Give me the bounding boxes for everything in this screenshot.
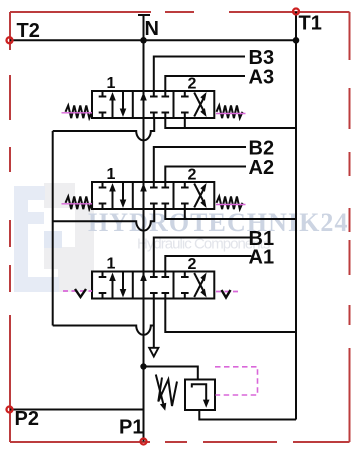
valve 1 right return spring xyxy=(217,106,243,119)
wire: valve 1 tank return to T1 xyxy=(165,118,296,128)
svg-text:P1: P1 xyxy=(119,417,143,439)
wire: pump feed to valve 2 with crossing hop xyxy=(53,210,155,231)
enclosure boundary left edge (red dashed) xyxy=(9,12,11,442)
svg-text:A2: A2 xyxy=(249,157,275,179)
valve 3 right box crossed arrows xyxy=(194,273,203,297)
valve 3 left detent centreline (magenta dashed) xyxy=(63,290,92,292)
svg-text:T2: T2 xyxy=(17,20,40,42)
valve section 3 outer boxes xyxy=(92,272,214,299)
svg-text:A1: A1 xyxy=(249,246,275,268)
valve 1 left box down arrow xyxy=(122,92,124,112)
wire: N / centre gallery vertical xyxy=(143,15,145,442)
valve 1 left return spring xyxy=(66,106,93,119)
svg-text:2: 2 xyxy=(188,76,197,93)
valve 2 centre gallery up arrowhead xyxy=(140,183,147,192)
valve 2 middle box blocked port stubs xyxy=(150,182,169,209)
relief valve adjustment arrow xyxy=(156,375,163,404)
valve 3 left box down arrow xyxy=(122,273,124,293)
connection point P1 (red) xyxy=(141,439,147,445)
valve 1 middle box blocked port stubs xyxy=(150,91,169,118)
connection point T2 (red) xyxy=(7,37,13,43)
valve 3 centre gallery up arrowhead xyxy=(140,273,147,282)
valve 3 left detent notch xyxy=(75,289,86,297)
valve 2 left box down arrow xyxy=(122,183,124,203)
valve 2 left box blocked port stubs xyxy=(99,182,107,209)
svg-text:1: 1 xyxy=(107,166,116,183)
relief valve flow path arrow xyxy=(192,384,206,400)
enclosure boundary right edge (red dashed) xyxy=(349,12,351,442)
wire: port A3 xyxy=(165,76,245,91)
valve 1 left box up arrow xyxy=(112,97,114,117)
relief valve body xyxy=(185,380,215,411)
wire: valve 2 right box drain stub xyxy=(184,209,186,219)
valve 2 left box up arrow xyxy=(112,188,114,208)
junction P node xyxy=(140,363,146,369)
valve 3 middle box blocked port stubs xyxy=(150,272,169,299)
wire: P2 line xyxy=(10,409,144,411)
wire: port A1 xyxy=(165,256,251,272)
enclosure boundary top edge (red dashed) xyxy=(10,11,350,13)
valve 1 right spring centreline (magenta) xyxy=(216,113,246,115)
valve 2 right spring centreline (magenta) xyxy=(216,204,246,206)
wire: valve 1 right box drain stub xyxy=(184,118,186,128)
valve 3 right box blocked port stubs xyxy=(181,272,189,299)
wire: tank rail T2-T1 xyxy=(10,39,296,41)
wire: pump feed to valve 1 with crossing hop xyxy=(53,119,155,141)
valve 2 left spring centreline (magenta) xyxy=(62,203,93,205)
valve 2 right box blocked port stubs xyxy=(181,182,189,209)
svg-text:1: 1 xyxy=(107,75,116,92)
open flow arrowhead xyxy=(149,348,158,357)
junction T1 x tank rail xyxy=(293,37,300,44)
pilot line (magenta dashed) xyxy=(215,367,258,395)
wire: left feed rail vertical xyxy=(52,131,54,326)
relief valve adjustable spring xyxy=(158,378,177,407)
valve 1 right box blocked port stubs xyxy=(181,91,189,118)
wire: valve 2 tank return to T1 xyxy=(165,209,296,219)
svg-text:N: N xyxy=(145,18,159,40)
svg-text:P2: P2 xyxy=(15,408,39,430)
svg-text:2: 2 xyxy=(188,256,197,273)
watermark logo block (light) xyxy=(14,183,94,292)
enclosure boundary bottom edge (red dashed) xyxy=(10,441,350,443)
wire: P node to relief valve xyxy=(144,367,198,380)
svg-text:HYDROTECHNIK24: HYDROTECHNIK24 xyxy=(88,208,348,237)
valve 2 right box crossed arrows xyxy=(194,184,203,208)
node N top tick xyxy=(138,14,150,16)
valve 1 right box crossed arrows xyxy=(194,93,203,117)
wire: valve 3 tank return to T1 xyxy=(165,299,296,333)
wire: port B1 xyxy=(154,238,252,272)
valve section 1 outer boxes xyxy=(92,91,214,118)
valve 3 right detent centreline (magenta dashed) xyxy=(216,291,239,293)
junction N x tank rail xyxy=(140,37,147,44)
valve 1 left spring centreline (magenta) xyxy=(62,112,93,114)
valve 2 right return spring xyxy=(217,197,243,210)
wire: valve 3 feed vertical with flow arrow xyxy=(153,299,155,349)
valve 2 left return spring xyxy=(66,197,93,210)
valve 3 left box up arrow xyxy=(112,278,114,298)
svg-text:A3: A3 xyxy=(249,66,275,88)
connection point T1 (red) xyxy=(293,9,299,15)
valve 3 right detent notch xyxy=(222,290,231,298)
wire: relief valve outlet to tank rail xyxy=(199,410,296,420)
wire: port B3 xyxy=(154,57,245,92)
valve section 2 outer boxes xyxy=(92,182,214,209)
connection point P2 (red) xyxy=(7,407,13,413)
svg-text:2: 2 xyxy=(188,167,197,184)
svg-text:T1: T1 xyxy=(299,13,322,35)
svg-text:1: 1 xyxy=(107,256,116,273)
wire: T1 right rail vertical xyxy=(295,12,297,420)
wire: port B2 xyxy=(154,147,246,182)
valve 1 centre gallery up arrowhead xyxy=(140,92,147,101)
valve 1 left box blocked port stubs xyxy=(99,91,107,118)
valve 3 left box blocked port stubs xyxy=(99,272,107,299)
wire: pump feed to valve 3 with crossing hop xyxy=(53,326,154,335)
wire: port A2 xyxy=(165,167,246,183)
